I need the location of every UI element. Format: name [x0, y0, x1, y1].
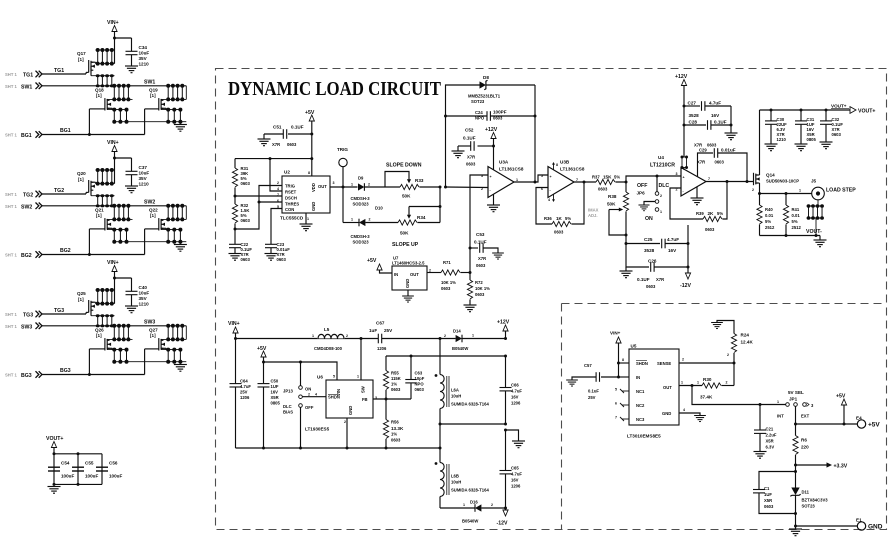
svg-text:2512: 2512	[765, 225, 775, 230]
svg-text:L5: L5	[324, 327, 330, 332]
svg-text:ADJ.: ADJ.	[588, 213, 598, 218]
capacitor C52	[478, 145, 494, 147]
ground C52	[452, 151, 465, 158]
svg-text:0603: 0603	[391, 387, 401, 392]
svg-text:25V: 25V	[384, 328, 393, 333]
svg-text:MMBZ5231BLT1: MMBZ5231BLT1	[468, 94, 501, 99]
MOSFET block 2 graphics (Q20 Q21 Q22)	[36, 146, 187, 258]
capacitor C51	[288, 133, 312, 135]
svg-text:1210: 1210	[139, 182, 150, 187]
svg-text:C50: C50	[271, 379, 279, 384]
svg-text:6: 6	[615, 402, 617, 406]
svg-text:35V: 35V	[139, 56, 148, 61]
capacitor C31	[800, 110, 802, 121]
ground C21	[754, 452, 767, 459]
svg-text:VOUT-: VOUT-	[806, 229, 822, 235]
svg-text:EXT: EXT	[801, 414, 810, 419]
svg-text:R40: R40	[765, 207, 773, 212]
svg-text:R56: R56	[391, 420, 399, 425]
svg-text:IMAX: IMAX	[588, 208, 599, 213]
ground C26	[625, 267, 627, 271]
svg-text:+5V: +5V	[868, 422, 880, 429]
svg-text:C63: C63	[415, 371, 423, 376]
svg-text:1: 1	[307, 217, 309, 221]
resistor R55	[385, 356, 387, 371]
capacitor C24 feedback	[446, 115, 488, 117]
svg-text:VOUT+: VOUT+	[831, 104, 847, 109]
svg-text:8: 8	[556, 163, 558, 167]
svg-text:VIN+: VIN+	[107, 140, 119, 146]
capacitor C27	[684, 105, 700, 107]
svg-text:3: 3	[676, 172, 678, 176]
svg-text:CON: CON	[285, 207, 294, 212]
svg-text:100uF: 100uF	[61, 474, 74, 479]
svg-text:TRIG: TRIG	[337, 147, 348, 152]
svg-text:THRES: THRES	[285, 202, 299, 207]
potentiometer R34 SLOPE UP	[398, 220, 417, 225]
wire TRIG/THRES tie	[235, 186, 282, 230]
capacitor C25	[626, 243, 660, 245]
MOSFET block 1 labels	[5, 20, 158, 139]
svg-text:C65: C65	[511, 466, 519, 471]
svg-text:NC1: NC1	[636, 389, 645, 394]
svg-text:37.4K: 37.4K	[700, 395, 713, 400]
svg-text:3: 3	[333, 181, 335, 185]
svg-text:C24: C24	[475, 110, 483, 115]
resistor R6	[793, 436, 798, 455]
svg-text:SHT 1: SHT 1	[5, 84, 18, 89]
svg-text:B0540W: B0540W	[462, 519, 478, 524]
ground U5 GND pin	[679, 413, 700, 416]
diode D14	[456, 335, 462, 343]
svg-text:+5V: +5V	[836, 394, 846, 400]
svg-text:[1]: [1]	[96, 333, 102, 338]
svg-text:D10: D10	[375, 206, 383, 211]
ground C51	[258, 139, 271, 146]
svg-text:1K: 1K	[556, 216, 563, 221]
wire VOUT+ rails	[54, 448, 102, 485]
svg-text:Q17: Q17	[77, 51, 86, 56]
svg-text:TG2: TG2	[54, 188, 64, 194]
svg-text:LT1460HCS3-2.5: LT1460HCS3-2.5	[392, 260, 425, 265]
capacitor C21	[759, 405, 761, 430]
svg-text:1: 1	[660, 210, 662, 214]
svg-text:0603: 0603	[832, 132, 842, 137]
svg-text:SW2: SW2	[144, 200, 155, 206]
svg-text:ON: ON	[645, 216, 653, 222]
dashed border: dynamic load circuit outer box	[216, 69, 887, 530]
svg-text:C51: C51	[273, 125, 282, 130]
svg-text:TG2: TG2	[23, 193, 33, 199]
svg-text:0603: 0603	[764, 504, 774, 509]
svg-text:50K: 50K	[607, 202, 616, 207]
svg-text:R36: R36	[544, 216, 552, 221]
capacitor C66	[505, 356, 507, 387]
svg-text:0.01: 0.01	[792, 213, 801, 218]
svg-text:VDD: VDD	[311, 183, 316, 192]
svg-text:BG3: BG3	[60, 368, 71, 374]
svg-text:35V: 35V	[139, 296, 148, 301]
svg-text:LT1361CS8: LT1361CS8	[499, 167, 524, 172]
svg-text:D11: D11	[802, 490, 810, 495]
wire SENSE down	[733, 363, 735, 386]
wire U3B out	[574, 181, 596, 183]
inductor L6A	[439, 339, 441, 375]
resistor R56	[385, 399, 387, 420]
svg-text:NPO: NPO	[415, 382, 425, 387]
svg-text:R39: R39	[696, 211, 704, 216]
svg-text:50K: 50K	[402, 194, 411, 199]
svg-text:2: 2	[369, 218, 371, 222]
svg-text:C34: C34	[139, 45, 148, 50]
svg-text:100uF: 100uF	[85, 474, 98, 479]
svg-text:16V: 16V	[711, 113, 720, 118]
svg-text:X7R: X7R	[656, 277, 664, 282]
dashed divider: horizontal at y=303	[562, 303, 887, 305]
svg-text:2: 2	[344, 420, 346, 424]
svg-text:0.1UF: 0.1UF	[714, 120, 727, 125]
op-amp U3A LT1361CS8	[488, 167, 514, 198]
svg-text:25V: 25V	[588, 395, 596, 400]
svg-text:BG1: BG1	[21, 133, 32, 139]
svg-text:B0540W: B0540W	[452, 346, 468, 351]
MOSFET block 1 graphics (Q17 Q18 Q19)	[36, 26, 187, 138]
svg-text:X5R: X5R	[766, 439, 774, 444]
svg-text:4: 4	[277, 187, 279, 191]
svg-text:SHT 1: SHT 1	[5, 72, 18, 77]
svg-text:[1]: [1]	[150, 93, 156, 98]
svg-text:5%: 5%	[614, 175, 620, 180]
svg-text:25V: 25V	[240, 390, 248, 395]
wire OUT to JP1	[692, 386, 786, 405]
svg-text:15K: 15K	[603, 175, 612, 180]
svg-text:35V: 35V	[139, 176, 148, 181]
svg-text:SW: SW	[361, 386, 366, 393]
svg-text:SHT 1: SHT 1	[5, 373, 18, 378]
wire OUT row	[330, 186, 358, 188]
svg-text:100uF: 100uF	[109, 474, 122, 479]
svg-text:3528: 3528	[689, 113, 700, 118]
svg-text:7: 7	[708, 177, 710, 181]
ground C57	[566, 380, 578, 386]
svg-text:5%: 5%	[717, 211, 723, 216]
svg-text:D8: D8	[483, 75, 489, 80]
MOSFET block 3 labels	[5, 260, 158, 379]
svg-text:ON: ON	[305, 387, 311, 392]
svg-text:2: 2	[660, 194, 662, 198]
svg-text:0.01uF: 0.01uF	[721, 148, 736, 153]
svg-text:1: 1	[312, 334, 314, 338]
svg-text:+5V: +5V	[305, 110, 315, 116]
svg-text:5: 5	[277, 205, 279, 209]
resistor R30	[702, 383, 721, 388]
svg-text:SHT 1: SHT 1	[5, 204, 18, 209]
svg-text:SW3: SW3	[144, 320, 155, 326]
capacitor C23	[265, 244, 277, 247]
svg-text:NC2: NC2	[636, 403, 645, 408]
svg-text:16V: 16V	[668, 248, 677, 253]
VOUT+ bulk capacitor bank	[46, 436, 122, 493]
wire -12V supply	[687, 225, 689, 272]
wire ground rail (bottom-left)	[236, 447, 441, 449]
svg-text:13.3K: 13.3K	[391, 426, 404, 431]
svg-text:DYNAMIC LOAD CIRCUIT: DYNAMIC LOAD CIRCUIT	[228, 78, 442, 100]
inductor L5	[317, 332, 345, 338]
svg-text:JP13: JP13	[283, 389, 293, 394]
svg-text:5: 5	[333, 375, 335, 379]
zener D11	[795, 472, 797, 488]
svg-text:5V SEL: 5V SEL	[788, 390, 804, 395]
svg-text:Q21: Q21	[95, 208, 104, 213]
svg-text:2: 2	[682, 358, 684, 362]
svg-text:C37: C37	[139, 165, 148, 170]
svg-text:VIN+: VIN+	[610, 331, 621, 336]
svg-text:SLOPE UP: SLOPE UP	[392, 242, 419, 248]
svg-text:E1: E1	[856, 518, 862, 523]
svg-text:D16: D16	[470, 500, 478, 505]
svg-text:0.1uF: 0.1uF	[588, 389, 599, 394]
svg-text:SHT 1: SHT 1	[5, 253, 18, 258]
svg-text:10uH: 10uH	[451, 394, 461, 399]
wire OUT to D10 branch	[342, 187, 344, 223]
svg-text:U4: U4	[658, 155, 664, 160]
svg-text:OFF: OFF	[305, 405, 314, 410]
svg-text:4.7uF: 4.7uF	[709, 101, 721, 106]
svg-text:4: 4	[683, 408, 685, 412]
capacitor C50	[258, 384, 270, 387]
svg-text:U3A: U3A	[499, 160, 509, 165]
svg-text:VOUT+: VOUT+	[46, 436, 63, 442]
ground U7	[407, 290, 409, 296]
connector J5 LOAD STEP	[812, 187, 825, 200]
ground U6	[346, 418, 348, 448]
svg-text:10K 1%: 10K 1%	[475, 286, 490, 291]
svg-text:2.2uF: 2.2uF	[766, 433, 777, 438]
svg-text:0.01: 0.01	[765, 213, 774, 218]
svg-text:1: 1	[472, 334, 474, 338]
svg-text:Q19: Q19	[149, 88, 158, 93]
svg-text:X7R: X7R	[697, 160, 705, 165]
wire SHDN tie	[619, 362, 630, 364]
svg-text:1206: 1206	[240, 395, 250, 400]
svg-text:0603: 0603	[441, 286, 451, 291]
svg-text:U3B: U3B	[560, 160, 570, 165]
svg-text:CMDSH-3: CMDSH-3	[351, 234, 371, 239]
svg-text:0603: 0603	[646, 284, 656, 289]
wire mid rail	[440, 423, 506, 425]
ground C23	[265, 254, 278, 261]
capacitor C54	[48, 467, 60, 468]
svg-text:0.1UF: 0.1UF	[291, 125, 304, 130]
svg-text:2: 2	[481, 187, 483, 191]
svg-text:U5: U5	[631, 344, 637, 349]
svg-text:0603: 0603	[277, 257, 287, 262]
svg-text:SHT 1: SHT 1	[5, 312, 18, 317]
wire +5V to VIN/JP13	[264, 362, 338, 380]
svg-text:[1]: [1]	[96, 213, 102, 218]
svg-text:115K: 115K	[391, 376, 401, 381]
capacitor C64	[235, 339, 237, 384]
inductor L6B	[439, 448, 441, 463]
svg-text:X7R: X7R	[467, 155, 475, 160]
wire switch rail	[236, 338, 379, 340]
svg-text:6: 6	[277, 199, 279, 203]
svg-text:NPO: NPO	[475, 116, 485, 121]
svg-text:16V: 16V	[511, 478, 519, 483]
svg-text:0603: 0603	[287, 142, 297, 147]
ground VOUT+ bank	[48, 487, 61, 494]
svg-text:1210: 1210	[139, 302, 150, 307]
svg-text:6.3V: 6.3V	[766, 445, 775, 450]
svg-text:+12V: +12V	[497, 320, 510, 326]
svg-text:+12V: +12V	[675, 74, 688, 80]
svg-text:0603: 0603	[705, 227, 715, 232]
svg-text:C54: C54	[61, 461, 70, 466]
svg-text:C29: C29	[699, 148, 707, 153]
capacitor C28	[684, 124, 706, 126]
svg-text:50K: 50K	[400, 231, 409, 236]
svg-text:R41: R41	[792, 207, 800, 212]
svg-text:X7R: X7R	[272, 142, 280, 147]
svg-text:INT: INT	[777, 414, 784, 419]
svg-text:R37: R37	[592, 175, 600, 180]
svg-text:2: 2	[752, 188, 754, 192]
svg-text:RSET: RSET	[285, 190, 297, 195]
svg-text:DSCH: DSCH	[285, 196, 297, 201]
wire +5V row	[795, 406, 797, 435]
svg-text:1: 1	[351, 183, 353, 187]
power -12V arrow (DCDC)	[503, 510, 508, 516]
wire U4 out to Q14 gate	[706, 181, 754, 183]
svg-text:R30: R30	[703, 377, 712, 382]
svg-text:5%: 5%	[565, 216, 571, 221]
svg-text:E4: E4	[856, 416, 862, 421]
wire CON to C23	[271, 209, 282, 245]
svg-text:SHT 1: SHT 1	[5, 192, 18, 197]
svg-text:IN: IN	[394, 272, 398, 277]
svg-text:[1]: [1]	[78, 57, 84, 62]
svg-text:LOAD STEP: LOAD STEP	[826, 188, 856, 194]
wire VOUT- rail	[760, 235, 821, 237]
svg-text:C27: C27	[688, 101, 697, 106]
svg-text:[1]: [1]	[96, 93, 102, 98]
svg-text:100PF: 100PF	[493, 110, 507, 115]
svg-text:12.4K: 12.4K	[741, 340, 754, 345]
capacitor C30	[770, 110, 772, 121]
ground mid rail	[506, 430, 519, 441]
svg-text:1: 1	[681, 381, 683, 385]
svg-text:2512: 2512	[792, 225, 802, 230]
svg-text:0603: 0603	[241, 218, 251, 223]
svg-text:GND: GND	[311, 202, 316, 211]
transistor Q14	[754, 173, 760, 185]
svg-text:1206: 1206	[511, 484, 521, 489]
svg-text:C64: C64	[240, 379, 248, 384]
svg-text:TG3: TG3	[23, 313, 33, 319]
svg-text:GND: GND	[405, 279, 410, 288]
svg-text:7: 7	[576, 178, 578, 182]
svg-text:220: 220	[801, 445, 809, 450]
svg-text:0603: 0603	[554, 230, 564, 235]
svg-text:GND: GND	[868, 524, 883, 531]
capacitor C53	[469, 247, 472, 250]
svg-text:BG2: BG2	[60, 248, 71, 254]
capacitor C32	[825, 110, 827, 121]
svg-text:2: 2	[346, 334, 348, 338]
capacitor C63	[410, 383, 412, 399]
svg-text:C57: C57	[584, 363, 592, 368]
svg-text:D14: D14	[453, 329, 461, 334]
svg-text:16V: 16V	[511, 395, 519, 400]
svg-text:R34: R34	[417, 215, 426, 220]
svg-text:8: 8	[308, 171, 310, 175]
svg-text:R6: R6	[801, 438, 807, 443]
dashed divider: vertical at x=561	[561, 304, 563, 530]
svg-text:[1]: [1]	[150, 213, 156, 218]
svg-text:FB: FB	[362, 397, 368, 402]
svg-text:DLC: DLC	[659, 183, 670, 189]
svg-text:SW1: SW1	[21, 84, 32, 90]
op-amp U4 LT1210CR	[681, 168, 706, 197]
svg-text:0603: 0603	[241, 257, 251, 262]
ground VOUT-	[819, 236, 821, 241]
svg-text:+3.3V: +3.3V	[834, 464, 848, 470]
svg-text:DLC: DLC	[283, 404, 292, 409]
resistor R32	[232, 204, 237, 223]
svg-text:JP1: JP1	[789, 397, 798, 402]
svg-text:C21: C21	[766, 427, 774, 432]
resistor R71	[427, 272, 441, 274]
svg-text:C1: C1	[764, 486, 770, 491]
svg-text:U2: U2	[284, 170, 290, 175]
svg-text:4.7uF: 4.7uF	[511, 472, 522, 477]
svg-text:1uF: 1uF	[369, 328, 377, 333]
power -12V arrow	[685, 273, 690, 279]
svg-text:SW3: SW3	[21, 324, 32, 330]
svg-text:2K: 2K	[708, 211, 715, 216]
svg-text:Q25: Q25	[77, 291, 86, 296]
svg-text:1UF: 1UF	[271, 384, 279, 389]
svg-text:4: 4	[548, 198, 550, 202]
wire U3A +in reference	[470, 175, 488, 273]
svg-text:R33: R33	[415, 178, 424, 183]
svg-text:SENSE: SENSE	[657, 361, 671, 366]
svg-text:+: +	[550, 175, 552, 179]
svg-text:R24: R24	[741, 333, 750, 338]
svg-text:16V: 16V	[271, 390, 279, 395]
capacitor C22	[234, 229, 236, 244]
svg-text:OUT: OUT	[663, 385, 672, 390]
resistor R36 feedback	[536, 188, 552, 225]
svg-text:[1]: [1]	[78, 297, 84, 302]
svg-text:-12V: -12V	[680, 283, 691, 289]
op IC U2 TLC555CD	[282, 176, 330, 213]
svg-text:5: 5	[541, 174, 543, 178]
svg-text:Q26: Q26	[95, 328, 104, 333]
svg-text:+: +	[683, 176, 685, 180]
svg-text:+: +	[490, 175, 492, 179]
svg-text:1: 1	[516, 178, 518, 182]
svg-text:2: 2	[727, 353, 729, 357]
svg-text:5%: 5%	[765, 219, 771, 224]
resistor R37	[596, 179, 615, 184]
capacitor C57	[619, 376, 630, 378]
svg-text:D9: D9	[358, 176, 364, 181]
svg-text:2: 2	[277, 181, 279, 185]
svg-text:1: 1	[799, 189, 801, 193]
svg-text:8: 8	[622, 358, 624, 362]
svg-text:0603: 0603	[598, 187, 608, 192]
